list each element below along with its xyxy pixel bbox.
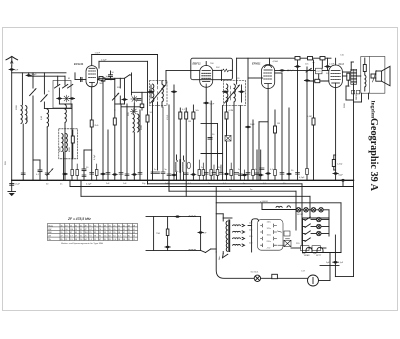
svg-text:150v: 150v (267, 235, 271, 237)
band switch S1a (55, 84, 61, 88)
wire IFT2 verticals (241, 85, 243, 90)
svg-text:50µF: 50µF (250, 124, 256, 126)
wire x297.5 down (297, 70, 299, 180)
wire c3 (162, 107, 164, 172)
wire x216 drop (215, 188, 217, 252)
svg-text:38: 38 (75, 239, 77, 241)
svg-text:85: 85 (128, 229, 130, 231)
wire plug right (319, 280, 331, 282)
capacitor row c15 (246, 173, 250, 175)
dial lamp 2 (304, 208, 308, 212)
coil IFT2 primary (227, 84, 228, 102)
svg-text:25: 25 (94, 229, 96, 231)
tube V3 EFM11 (262, 65, 275, 89)
svg-text:49: 49 (128, 225, 130, 227)
speaker box (361, 57, 385, 94)
coil tone top (188, 215, 196, 218)
svg-text:31: 31 (118, 225, 120, 227)
wire switch feeds (57, 76, 59, 85)
selector row 4 (261, 244, 277, 247)
svg-text:MW: MW (48, 232, 52, 234)
wire x240.4 (239, 106, 241, 181)
svg-text:1nF: 1nF (15, 70, 19, 72)
svg-text:25: 25 (70, 225, 72, 227)
capacitor row c5 (171, 174, 176, 176)
svg-text:31: 31 (65, 239, 67, 241)
wire x127 down (126, 104, 128, 180)
svg-text:64: 64 (85, 239, 87, 241)
variable arrow near x50 (47, 169, 53, 176)
resistor 50k x193.4 (192, 112, 195, 119)
svg-text:KW: KW (48, 229, 51, 231)
wire x174 (173, 85, 175, 180)
svg-text:38: 38 (123, 239, 125, 241)
gang box (53, 81, 71, 109)
small resistor r4 (216, 170, 219, 176)
coil IFT1 primary (153, 84, 154, 102)
wire row2 (303, 226, 306, 228)
wire V4 anode (342, 71, 350, 73)
svg-text:58: 58 (118, 239, 120, 241)
capacitor row c7 (191, 173, 196, 175)
wire switch link (201, 250, 206, 252)
wire V1 top to y54.5 rail (91, 55, 93, 66)
wire x114.8 down (114, 110, 116, 180)
padder box (140, 104, 144, 108)
main ground bus (12, 179, 354, 181)
coil L3 (47, 109, 48, 127)
svg-text:95: 95 (113, 229, 115, 231)
svg-text:0,7: 0,7 (118, 236, 121, 238)
dial lamp 4 (319, 208, 323, 212)
table contents (48, 225, 135, 241)
wire x120.3 (119, 78, 121, 88)
wire x335.4 (334, 235, 336, 261)
capacitor row c16 (255, 173, 259, 175)
svg-text:1,5: 1,5 (109, 232, 112, 234)
wire to fuse (216, 252, 254, 278)
wire V1 anode right (98, 79, 115, 81)
svg-text:47: 47 (70, 232, 72, 234)
svg-text:31: 31 (80, 236, 82, 238)
wire lamp link2 (308, 209, 311, 211)
trimmer box CY (316, 68, 323, 74)
fuse bump left (306, 247, 312, 252)
svg-text:85: 85 (94, 232, 96, 234)
resistor x114.8 (113, 118, 116, 125)
transformer core (228, 220, 230, 253)
capacitor blob x72 (69, 97, 74, 99)
svg-text:50Ω: 50Ω (5, 161, 7, 165)
coil L5 8000 (62, 134, 63, 152)
capacitor row c34 (138, 173, 142, 175)
svg-text:47: 47 (75, 236, 77, 238)
coil IFT2 secondary (234, 84, 235, 102)
capacitor 50pF junction (26, 74, 31, 76)
svg-text:0,1µF: 0,1µF (15, 184, 21, 186)
resistor grid V4 (315, 79, 320, 82)
capacitor row c6 (184, 173, 188, 175)
capacitor blob x174 (171, 91, 176, 93)
small resistor r1 (198, 170, 201, 176)
svg-text:EFM11: EFM11 (252, 61, 261, 65)
svg-text:0,1µF: 0,1µF (94, 154, 96, 160)
resistor x147.5 (146, 115, 149, 122)
wire x257 (256, 150, 258, 180)
wire row4 (303, 240, 306, 242)
secondary tap 125 (233, 231, 245, 233)
capacitor blob y70.4 (279, 69, 284, 71)
wire x124.5 (124, 78, 126, 98)
svg-text:31: 31 (123, 229, 125, 231)
wire grid V4 (321, 60, 323, 68)
wire y76.2 (28, 73, 30, 76)
capacitor row c28 (100, 173, 105, 175)
wire L4 down (64, 123, 66, 180)
svg-text:50C: 50C (216, 67, 220, 69)
wire heater row (262, 209, 297, 211)
capacitor row c4 (167, 174, 171, 176)
wire tone mid (167, 217, 169, 251)
capacitor row c13 (238, 174, 242, 176)
svg-text:ECH41: ECH41 (74, 62, 84, 66)
wire x40 (39, 160, 41, 170)
AF transformer (175, 155, 190, 180)
svg-text:75: 75 (89, 225, 91, 227)
wire x248 (247, 58, 249, 126)
scattered component value labels (5, 61, 358, 264)
switch row4 (305, 237, 311, 241)
svg-text:47: 47 (99, 239, 101, 241)
wire vertical x22.4 (21, 73, 23, 105)
wire x142 (141, 92, 143, 104)
svg-text:95: 95 (61, 232, 63, 234)
ground (8, 192, 16, 197)
wire vertical x44.4 (43, 73, 45, 94)
svg-text:Ingelen: Ingelen (370, 101, 376, 120)
wire r11 (96, 164, 98, 170)
capacitor x210 (208, 138, 212, 140)
svg-text:25: 25 (99, 232, 101, 234)
IF transformer IFT2 box (224, 81, 246, 106)
wire lamp link3 (316, 209, 319, 211)
capacitor 0.1uF right (333, 261, 338, 263)
wire x193.4 (192, 105, 194, 112)
wire C2 down (43, 102, 45, 108)
small resistor r10 (76, 170, 79, 176)
capacitor row c21 (286, 173, 291, 175)
svg-text:0,2µF: 0,2µF (101, 60, 107, 62)
trimmer right (137, 99, 141, 101)
svg-text:478,5: 478,5 (167, 114, 169, 120)
wire transformer top/bottom (222, 218, 224, 221)
junction dot rail (313, 62, 315, 64)
wire box leads (72, 130, 74, 136)
wire after switch (130, 74, 132, 76)
capacitor x40 (38, 170, 42, 172)
svg-text:31: 31 (75, 225, 77, 227)
wire c14 (244, 170, 246, 180)
wire x348 (342, 75, 346, 77)
wire x222.6 (222, 106, 224, 181)
svg-text:63: 63 (133, 232, 135, 234)
svg-text:0,1µF: 0,1µF (299, 177, 305, 179)
tube V1 ECH41 mixer (86, 66, 98, 87)
svg-text:-70v: -70v (267, 248, 271, 250)
svg-text:125v: 125v (267, 228, 271, 230)
heater supply line (216, 202, 341, 204)
crossed box BYTT (284, 239, 291, 247)
table column lines (59, 224, 61, 241)
wire bottom right corner (335, 276, 353, 278)
capacitor blob x307 (304, 79, 309, 81)
wire lamp row end (323, 209, 329, 211)
wire grid to V2 (161, 81, 163, 85)
svg-text:47: 47 (85, 229, 87, 231)
wire x206 V2 top (205, 62, 207, 66)
wire V2 anode right (213, 69, 222, 71)
wire x142 down (141, 108, 143, 110)
coil L4 (65, 105, 66, 123)
wire C3 down (119, 96, 121, 104)
resistor 0.3M (225, 112, 228, 119)
wire tone top (146, 216, 201, 218)
svg-text:EBF11: EBF11 (193, 62, 202, 66)
variable capacitor tuning C1 (30, 89, 36, 96)
wire row3 (303, 233, 306, 235)
wire gang link (59, 103, 72, 105)
svg-text:58: 58 (65, 229, 67, 231)
capacitor row c36 (62, 173, 67, 175)
wire speaker internals (364, 58, 366, 65)
svg-text:25: 25 (85, 236, 87, 238)
svg-text:85: 85 (61, 239, 63, 241)
wire transformer down long right side (353, 84, 355, 277)
capacitor x84 (82, 169, 86, 171)
svg-text:25: 25 (133, 239, 135, 241)
crossed trimmer (225, 136, 231, 142)
wire x186.2 (185, 108, 187, 112)
wire to IFT2 (230, 69, 233, 71)
small resistor r7 (274, 170, 277, 176)
svg-text:23: 23 (109, 225, 111, 227)
dial lamp 1 (296, 208, 300, 212)
lamp block right rail (328, 218, 330, 236)
row of decoupling parts along bus (21, 107, 308, 180)
resistor x322.5 on rail (320, 57, 325, 60)
wire tone right (200, 217, 202, 251)
wire IFT1 top feed (157, 55, 159, 85)
capacitor row c12 (235, 173, 239, 175)
wire x217.5 (217, 124, 219, 181)
wire stubs below speaker box (361, 93, 363, 102)
wire 1.2k (333, 155, 335, 160)
resistor x297.5 on rail (295, 57, 300, 60)
capacitor tone mid (198, 231, 203, 233)
resistor 1M anode (101, 78, 105, 81)
shield box oscillator coils (59, 129, 78, 159)
tube V4 CL4 output (329, 65, 343, 88)
wire x275 (274, 110, 276, 126)
svg-text:1M: 1M (277, 123, 280, 125)
coil IFT1 secondary (162, 84, 163, 102)
junction dot V2 (221, 70, 223, 72)
resistor x310 on rail (308, 57, 313, 60)
svg-text:95: 95 (104, 239, 106, 241)
wire x121 down (120, 104, 122, 180)
resistor box left (99, 77, 103, 81)
capacitor row c10 (219, 173, 223, 175)
svg-text:Geographic 39 A: Geographic 39 A (368, 118, 379, 192)
capacitor row c14 (242, 174, 247, 176)
wire L1 down (22, 124, 24, 180)
svg-text:110: 110 (85, 232, 88, 234)
capacitor bus end (341, 179, 344, 182)
frequency table (48, 224, 138, 241)
svg-text:0,3M: 0,3M (307, 116, 312, 118)
tube V2 EBF11 (200, 66, 213, 88)
wire switch lead (222, 254, 225, 258)
table row lines (48, 226, 138, 228)
capacitor row c20 (280, 173, 284, 175)
wire vertical x72 (71, 104, 73, 180)
capacitor 50uF (333, 172, 338, 174)
capacitor row c32 (125, 174, 129, 176)
small resistor r6 (252, 170, 255, 176)
fuse Geraetesicherung (254, 275, 260, 281)
wire x114.8 (114, 78, 116, 110)
resistor x313.5 (312, 118, 315, 125)
svg-text:1,5: 1,5 (123, 236, 126, 238)
svg-text:110v: 110v (267, 222, 271, 224)
svg-text:1M: 1M (188, 121, 191, 123)
svg-text:58: 58 (104, 232, 106, 234)
wire IFT2 bottoms (226, 102, 228, 180)
wire lamp link1 (301, 209, 304, 211)
svg-text:LW: LW (48, 236, 51, 238)
bus line y191.2 (169, 190, 296, 192)
svg-text:110: 110 (70, 229, 73, 231)
svg-text:4,5kΩ: 4,5kΩ (273, 61, 279, 63)
svg-text:74: 74 (89, 236, 91, 238)
svg-text:25: 25 (65, 232, 67, 234)
variable capacitor osc C3 (112, 93, 118, 100)
capacitor tone bottom left (165, 246, 170, 248)
wire right rail psu (340, 203, 342, 253)
fuse box FLA (284, 231, 290, 236)
capacitor row c8 (204, 173, 208, 175)
svg-text:2kΩ: 2kΩ (95, 125, 99, 127)
svg-text:Ger.Sich.: Ger.Sich. (251, 272, 260, 274)
wire IFT1 bottoms (152, 102, 154, 180)
heater winding bump 2 (287, 206, 290, 207)
wire V4 cathode (335, 88, 337, 181)
coil L1 antenna 2000 (21, 106, 22, 124)
svg-text:12: 12 (99, 225, 101, 227)
wire x313.5 (313, 60, 315, 71)
svg-text:2,4: 2,4 (80, 239, 83, 241)
wire row1 (303, 219, 306, 221)
selector row 1 (261, 224, 277, 227)
wire y265.6 (320, 265, 339, 267)
capacitor row c33 (132, 173, 137, 175)
table outer frame (48, 224, 138, 241)
variable capacitor trimmer C2 (41, 95, 47, 102)
svg-text:1,5nF: 1,5nF (95, 53, 101, 55)
wire x289 (288, 108, 290, 180)
wire tone left (153, 217, 155, 251)
wire x147.5 (147, 61, 149, 115)
svg-text:47: 47 (61, 236, 63, 238)
wire speaker leads (371, 73, 376, 75)
svg-text:0,1µF: 0,1µF (338, 262, 344, 264)
contact arrows right (278, 231, 285, 245)
wire transformer top (350, 62, 352, 70)
switch S2 (125, 74, 131, 78)
svg-text:19: 19 (65, 225, 67, 227)
coil L7 osc (133, 114, 134, 132)
capacitor row c9 (212, 173, 216, 175)
svg-text:63: 63 (133, 236, 135, 238)
svg-text:50nF: 50nF (210, 104, 215, 106)
wire x169 (168, 105, 170, 191)
svg-text:64: 64 (109, 236, 111, 238)
svg-text:1,5: 1,5 (89, 239, 92, 241)
wire c10 (220, 165, 222, 173)
svg-text:⌀ 5000Ω: ⌀ 5000Ω (260, 200, 268, 203)
secondary tap 150 (233, 237, 245, 239)
capacitor row c37 (21, 173, 25, 175)
svg-text:M: M (68, 78, 70, 80)
capacitor row c1 (151, 172, 155, 174)
bus line y183.8 (148, 183, 303, 185)
wire V3 anode rail y70.4 (275, 69, 329, 71)
lamp row3 (317, 231, 321, 235)
IFT1 core (157, 86, 159, 100)
coil tone bottom (188, 249, 196, 252)
wire x180.3 (179, 108, 181, 112)
wire fuse to plug (261, 277, 308, 279)
wire C1 down (32, 96, 34, 180)
dial lamp 3 (311, 208, 315, 212)
capacitor row c11 (224, 173, 229, 175)
voltage selector panel (258, 219, 284, 250)
capacitor tone top (175, 215, 180, 217)
capacitor row c26 (82, 175, 86, 177)
small resistor r5 (230, 170, 233, 176)
resistor field coil (363, 65, 366, 72)
svg-text:25: 25 (80, 232, 82, 234)
svg-text:SK SP: SK SP (297, 214, 304, 216)
antenna (6, 56, 18, 66)
capacitor row c17 (258, 174, 263, 176)
capacitor grid (81, 77, 82, 81)
lamp block bottom (303, 252, 342, 254)
mains plug (308, 275, 319, 286)
wire x307 down (306, 67, 308, 180)
svg-text:1,5: 1,5 (70, 239, 73, 241)
svg-text:25: 25 (89, 232, 91, 234)
wire L3 down (46, 107, 48, 110)
capacitor row c3 (161, 172, 165, 174)
svg-text:90: 90 (94, 225, 96, 227)
svg-text:MΩ: MΩ (100, 83, 104, 85)
svg-text:2,4: 2,4 (104, 236, 107, 238)
selector row 2 (261, 230, 277, 233)
small resistor r3 (210, 170, 213, 176)
wire x226.5 res down (226, 119, 228, 136)
wire x260.7 (260, 150, 262, 180)
